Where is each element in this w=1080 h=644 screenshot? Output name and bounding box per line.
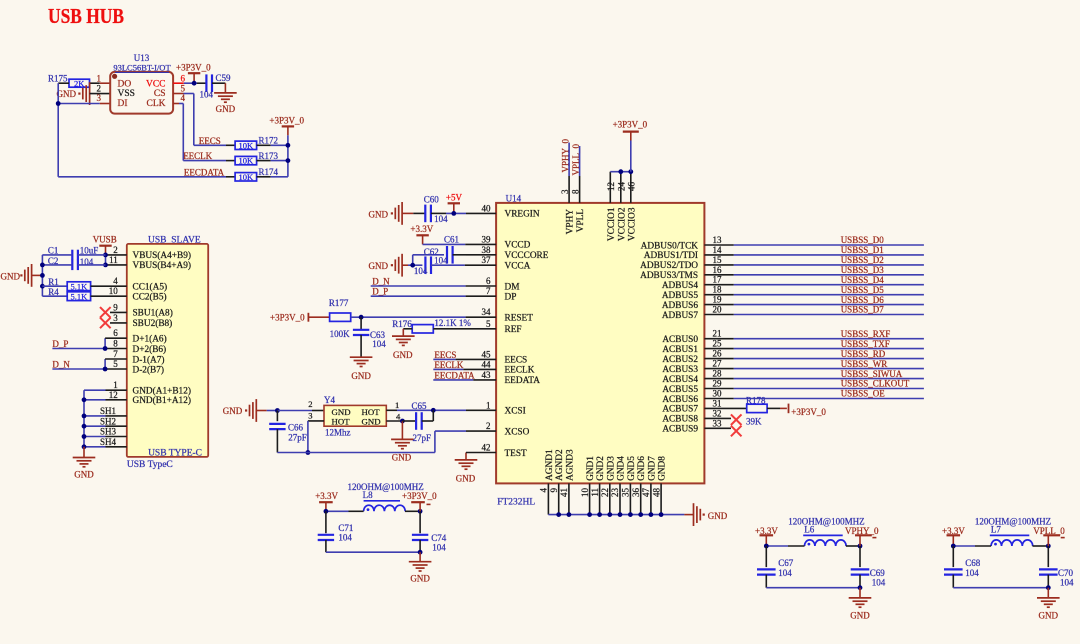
svg-text:9: 9 — [113, 302, 118, 312]
pin number 5 U13 — [181, 83, 186, 93]
pin number 2 USB_SLAVE — [113, 245, 118, 255]
svg-text:7: 7 — [113, 349, 118, 359]
svg-text:USBSS_D3: USBSS_D3 — [841, 265, 885, 275]
svg-text:VCCA: VCCA — [505, 262, 531, 272]
no-connect X SBU2 — [100, 318, 127, 329]
svg-text:GND(B1+A12): GND(B1+A12) — [133, 395, 191, 406]
pin number 4 U13 — [181, 93, 186, 103]
svg-text:28: 28 — [713, 369, 723, 379]
svg-text:ACBUS4: ACBUS4 — [662, 375, 698, 385]
svg-text:C65: C65 — [412, 401, 428, 411]
pin number 31 U14 right — [713, 398, 722, 408]
resistor R173 — [235, 151, 288, 166]
pin number 12 U14 top — [606, 182, 616, 191]
power +5V — [446, 192, 463, 213]
svg-text:CLK: CLK — [147, 99, 166, 109]
svg-text:104: 104 — [434, 214, 448, 224]
svg-text:GND2: GND2 — [596, 456, 606, 481]
wire bottom GND bus — [548, 483, 684, 514]
svg-text:17: 17 — [713, 275, 723, 285]
svg-text:USBSS_D7: USBSS_D7 — [841, 305, 885, 315]
resistor R178 — [704, 396, 787, 427]
pin number 1 U13 — [97, 74, 102, 84]
svg-text:USB TYPE-C: USB TYPE-C — [148, 448, 202, 458]
svg-text:104: 104 — [372, 339, 386, 349]
svg-text:12Mhz: 12Mhz — [325, 427, 351, 437]
svg-text:VSS: VSS — [118, 89, 135, 99]
svg-text:42: 42 — [482, 443, 491, 453]
svg-text:+3P3V_0: +3P3V_0 — [791, 407, 826, 417]
capacitor C65 — [402, 401, 433, 443]
pin number 10 USB_SLAVE — [109, 286, 119, 296]
svg-text:ACBUS6: ACBUS6 — [662, 395, 698, 405]
junction VCCA-GND — [410, 263, 415, 268]
wire/node USBSS_D4 — [704, 275, 924, 285]
svg-text:CC1(A5): CC1(A5) — [133, 282, 168, 293]
wire XCSO net — [277, 431, 496, 452]
node EECDATA label — [184, 167, 225, 177]
wire/node USBSS_SIWUA — [704, 369, 924, 379]
svg-text:R173: R173 — [259, 151, 279, 161]
svg-text:38: 38 — [482, 245, 492, 255]
pin number 21 U14 right — [713, 329, 722, 339]
svg-text:GND: GND — [850, 611, 870, 621]
resistor R4 — [42, 287, 126, 301]
svg-text:DI: DI — [118, 99, 128, 109]
svg-text:ADBUS5: ADBUS5 — [662, 291, 699, 301]
svg-text:USBSS_D4: USBSS_D4 — [841, 275, 885, 285]
pin number 26 U14 right — [713, 349, 723, 359]
IC U14 FT232HL body — [496, 194, 704, 508]
svg-text:XCSO: XCSO — [505, 427, 530, 437]
svg-text:1: 1 — [395, 400, 399, 410]
ground GND under Y4 pin4 — [391, 421, 414, 462]
pin number 42 U14 left — [482, 443, 491, 453]
svg-text:+5V: +5V — [446, 192, 463, 202]
power +3.3V at L8 — [315, 491, 338, 511]
power port +3P3V_0 at RESET — [270, 312, 330, 322]
pin number 37 U14 left — [482, 255, 492, 265]
node EECLK label — [183, 151, 212, 161]
wire EECS row — [194, 144, 235, 146]
svg-text:GND: GND — [393, 350, 413, 360]
svg-text:GND: GND — [216, 104, 236, 114]
svg-text:ACBUS1: ACBUS1 — [662, 345, 698, 355]
svg-text:C66: C66 — [288, 422, 304, 432]
svg-text:C67: C67 — [778, 558, 794, 568]
wire/node USBSS_D3 — [704, 265, 924, 275]
pin number 32 U14 right — [713, 408, 722, 418]
capacitor C60 — [413, 195, 496, 224]
svg-text:USBSS_D6: USBSS_D6 — [841, 295, 885, 305]
capacitor C71 — [318, 511, 354, 552]
svg-text:9: 9 — [549, 488, 559, 493]
svg-text:USB HUB: USB HUB — [48, 4, 124, 28]
wire EEDATA stub — [433, 379, 496, 381]
wire left rail — [41, 255, 43, 296]
svg-text:GND5: GND5 — [627, 456, 637, 481]
wire Y4 pin4 — [386, 420, 402, 422]
svg-text:D-2(B7): D-2(B7) — [133, 364, 165, 375]
junction GND bus — [649, 512, 654, 517]
svg-text:ADBUS7: ADBUS7 — [662, 311, 699, 321]
pin number 11 U14 bottom — [590, 488, 600, 497]
svg-text:VREGIN: VREGIN — [505, 210, 540, 220]
svg-text:27pF: 27pF — [288, 433, 307, 443]
pin number 15 U14 right — [713, 255, 723, 265]
pin number 4 U14 bottom — [539, 488, 549, 493]
svg-text:AGND2: AGND2 — [555, 449, 565, 481]
resistor R175 — [48, 74, 100, 89]
svg-text:D-1(A7): D-1(A7) — [133, 354, 165, 365]
svg-text:CC2(B5): CC2(B5) — [133, 292, 167, 303]
resistor R174 — [235, 167, 288, 182]
no-connect X SBU1 — [100, 307, 127, 318]
power +3.3V at L7 — [942, 526, 965, 546]
pin number 3 USB_SLAVE — [113, 313, 118, 323]
svg-text:GND: GND — [332, 407, 351, 417]
wire VPLL pin 8 — [579, 146, 581, 203]
pin number 5 USB_SLAVE — [113, 359, 118, 369]
U14 bottom pin names — [545, 449, 668, 481]
junction GND12 — [82, 397, 87, 402]
svg-text:SH1: SH1 — [100, 406, 116, 416]
svg-text:USBSS_D1: USBSS_D1 — [841, 245, 884, 255]
svg-text:6: 6 — [181, 74, 186, 84]
junction VBUS1 — [103, 253, 108, 258]
svg-text:5.1K: 5.1K — [71, 281, 89, 291]
svg-text:44: 44 — [482, 359, 492, 369]
wire D_P — [52, 338, 126, 348]
node D_N label — [52, 360, 70, 370]
svg-text:48: 48 — [651, 488, 661, 498]
node VPHY_0 at L6 — [845, 526, 879, 546]
svg-text:D_N: D_N — [52, 360, 70, 370]
inductor L8 120OHM@100MHZ — [326, 482, 424, 511]
svg-text:104: 104 — [414, 266, 428, 276]
junction VBUS2 — [103, 263, 108, 268]
wire ACBUS9 stub — [704, 427, 731, 429]
pin number 13 U14 right — [713, 235, 723, 245]
svg-text:31: 31 — [713, 398, 722, 408]
junction R173 rail — [286, 158, 291, 163]
junction R172 rail — [286, 143, 291, 148]
pin SH3 — [82, 427, 127, 439]
pin number 2 U13 — [97, 83, 102, 93]
svg-text:29: 29 — [713, 379, 723, 389]
svg-text:Y4: Y4 — [324, 395, 335, 405]
pin number 34 U14 left — [482, 307, 492, 317]
junction L8 right — [418, 509, 423, 514]
junction GND bus — [607, 512, 612, 517]
wire VPHY pin 3 — [568, 143, 570, 203]
wire/node USBSS_OE — [704, 389, 924, 399]
svg-text:USBSS_D0: USBSS_D0 — [841, 235, 885, 245]
svg-text:6: 6 — [486, 276, 491, 286]
svg-text:32: 32 — [713, 408, 722, 418]
pin number 27 U14 right — [713, 359, 723, 369]
svg-text:C59: C59 — [216, 73, 232, 83]
pin number 14 U14 right — [713, 245, 723, 255]
svg-text:GND: GND — [1039, 611, 1059, 621]
svg-text:VCCIO1: VCCIO1 — [607, 207, 617, 241]
svg-text:USBSS_D5: USBSS_D5 — [841, 285, 885, 295]
capacitor C66 — [269, 411, 307, 453]
svg-text:+3.3V: +3.3V — [410, 224, 433, 234]
pin number 30 U14 right — [713, 389, 723, 399]
svg-text:TEST: TEST — [505, 449, 528, 459]
svg-text:GND6: GND6 — [637, 456, 647, 481]
svg-text:GND1: GND1 — [586, 456, 596, 481]
svg-text:GND: GND — [57, 89, 77, 99]
pin number 18 U14 right — [713, 285, 723, 295]
svg-text:3: 3 — [113, 313, 118, 323]
power +3P3V_0 at U13 — [176, 63, 211, 84]
svg-text:R174: R174 — [259, 167, 279, 177]
node D_P label at U14 — [372, 287, 388, 297]
node D_N label at U14 — [372, 276, 390, 286]
svg-text:VCCIO3: VCCIO3 — [627, 207, 637, 241]
pin number 16 U14 right — [713, 265, 723, 275]
svg-text:USB TypeC: USB TypeC — [127, 460, 173, 470]
svg-text:4: 4 — [539, 488, 549, 493]
svg-text:3: 3 — [308, 411, 312, 421]
pin number 9 U14 bottom — [549, 488, 559, 493]
svg-text:10K: 10K — [239, 156, 255, 166]
capacitor C70 — [1039, 546, 1074, 588]
svg-text:39: 39 — [482, 234, 492, 244]
svg-text:93LC56BT-I/OT: 93LC56BT-I/OT — [113, 63, 171, 73]
pin number 39 U14 left — [482, 234, 492, 244]
wire/node USBSS_D6 — [704, 295, 924, 305]
node VPHY_0 vertical label — [560, 138, 570, 172]
pin number 23 U14 bottom — [610, 488, 620, 498]
svg-text:GND: GND — [392, 452, 412, 462]
power +3P3V_0 above U14 — [613, 119, 648, 171]
svg-text:10uF: 10uF — [80, 246, 99, 256]
no-connect X ACBUS9 — [731, 426, 742, 437]
svg-text:3: 3 — [97, 93, 102, 103]
power port +3P3V_0 at R178 — [789, 404, 827, 417]
svg-text:USBSS_WR: USBSS_WR — [841, 359, 888, 369]
svg-text:SH4: SH4 — [100, 437, 117, 447]
capacitor C68 — [944, 546, 981, 588]
pin number 8 U14 top — [571, 189, 581, 194]
pin number 12 USB_SLAVE — [109, 390, 118, 400]
svg-text:EECDATA: EECDATA — [184, 167, 225, 177]
svg-text:14: 14 — [713, 245, 723, 255]
junction RESET-C63 — [359, 315, 364, 320]
ground GND below USB connector — [73, 447, 96, 480]
wire Y4 pin3 — [308, 421, 324, 453]
svg-text:104: 104 — [965, 568, 979, 578]
junction L6 right — [858, 544, 863, 549]
svg-text:EEDATA: EEDATA — [505, 376, 541, 386]
pin number 25 U14 right — [713, 339, 723, 349]
wire VCC pin 6 — [173, 82, 206, 84]
svg-text:USBSS_D2: USBSS_D2 — [841, 255, 884, 265]
crystal Y4 body — [324, 395, 386, 437]
capacitor C67 — [757, 546, 794, 588]
pin number 3 U14 top — [560, 189, 570, 194]
junction VCC node — [192, 81, 197, 86]
svg-text:R176: R176 — [392, 319, 412, 329]
pin number 1 U14 left — [486, 400, 491, 410]
U14 top pin names VPHY VPLL VCCIO1-3 — [566, 207, 638, 241]
wire/node USBSS_D1 — [704, 245, 924, 255]
svg-text:DM: DM — [505, 282, 520, 292]
junction GND bus — [628, 512, 633, 517]
junction L6 left — [764, 544, 769, 549]
svg-text:R177: R177 — [329, 298, 349, 308]
pin number 36 U14 bottom — [631, 488, 641, 498]
wire/node USBSS_D2 — [704, 255, 924, 265]
pin number 44 U14 left — [482, 359, 492, 369]
svg-text:C69: C69 — [870, 568, 886, 578]
wire L6 bottom — [766, 587, 860, 589]
junction GND bus — [638, 512, 643, 517]
power VUSB — [93, 234, 117, 255]
svg-text:21: 21 — [713, 329, 722, 339]
capacitor C2 — [42, 256, 105, 270]
junction VREGIN — [451, 211, 456, 216]
svg-text:6: 6 — [113, 328, 118, 338]
svg-text:SH3: SH3 — [100, 427, 117, 437]
svg-text:30: 30 — [713, 389, 723, 399]
svg-text:5: 5 — [181, 83, 186, 93]
svg-text:U13: U13 — [134, 53, 150, 63]
U14 left pin names — [505, 210, 549, 459]
svg-text:2: 2 — [486, 421, 491, 431]
svg-text:27pF: 27pF — [413, 433, 432, 443]
svg-text:35: 35 — [621, 488, 631, 498]
wire DP row — [371, 295, 496, 297]
svg-text:HOT: HOT — [362, 407, 381, 417]
power +3P3V_0 pullup rail — [269, 115, 304, 176]
svg-text:GND: GND — [708, 511, 728, 521]
svg-text:100K: 100K — [330, 329, 351, 339]
title USB HUB — [48, 4, 124, 28]
svg-text:2: 2 — [97, 83, 102, 93]
svg-text:1: 1 — [486, 400, 491, 410]
svg-text:ACBUS8: ACBUS8 — [662, 415, 698, 425]
capacitor C69 — [851, 546, 886, 588]
svg-text:ACBUS9: ACBUS9 — [662, 425, 698, 435]
ground GND U13-VSS — [57, 82, 111, 105]
svg-text:GND: GND — [351, 371, 371, 381]
resistor R172 — [235, 136, 288, 151]
svg-text:ADBUS6: ADBUS6 — [662, 301, 699, 311]
svg-text:5: 5 — [113, 359, 118, 369]
pin SH2 — [82, 416, 127, 428]
junction rail-GND — [40, 273, 45, 278]
pin number 6 U14 left — [486, 276, 491, 286]
wire GND pins rail — [84, 390, 127, 447]
svg-text:USBSS_OE: USBSS_OE — [841, 389, 886, 399]
wire/node USBSS_D0 — [704, 235, 924, 245]
svg-text:+3P3V_0: +3P3V_0 — [613, 119, 648, 129]
svg-text:8: 8 — [113, 339, 118, 349]
svg-text:SBU2(B8): SBU2(B8) — [133, 318, 173, 329]
svg-text:D_N: D_N — [372, 276, 390, 286]
svg-text:+3.3V: +3.3V — [315, 491, 338, 501]
pin number 2 Y4 — [308, 399, 312, 409]
junction L7 left — [951, 544, 956, 549]
power +3.3V at VCCD — [410, 224, 433, 244]
ground GND under C63 — [350, 357, 373, 381]
junction GND bus — [556, 512, 561, 517]
svg-text:104: 104 — [872, 578, 886, 588]
svg-text:C61: C61 — [444, 234, 459, 244]
svg-text:2: 2 — [308, 399, 312, 409]
svg-text:10: 10 — [580, 488, 590, 498]
power +3.3V at L6 — [755, 526, 778, 546]
pin number 9 USB_SLAVE — [113, 302, 118, 312]
svg-text:EECDATA: EECDATA — [434, 370, 475, 380]
wire/node USBSS_TXF — [704, 339, 924, 349]
node D_P label — [52, 339, 68, 349]
svg-text:+3P3V_0: +3P3V_0 — [176, 63, 211, 73]
pin number 19 U14 right — [713, 295, 723, 305]
node VPLL_0 vertical label — [571, 144, 581, 176]
junction GND bus — [597, 512, 602, 517]
svg-text:L8: L8 — [363, 490, 373, 500]
wire ACBUS8 stub — [704, 417, 731, 419]
ground GND left of USB — [1, 264, 43, 287]
svg-text:USBSS_RXF: USBSS_RXF — [841, 329, 891, 339]
svg-text:USBSS_TXF: USBSS_TXF — [841, 339, 890, 349]
resistor R1 — [42, 277, 126, 291]
junction GND bus — [587, 512, 592, 517]
pin number 17 U14 right — [713, 275, 723, 285]
ground GND at C62 — [369, 254, 409, 277]
svg-text:104: 104 — [338, 532, 352, 542]
pin number 6 USB_SLAVE — [113, 328, 118, 338]
pin number 3 U13 — [97, 93, 102, 103]
svg-text:1: 1 — [97, 74, 102, 84]
svg-text:VUSB: VUSB — [93, 234, 117, 244]
svg-text:EECS: EECS — [505, 356, 528, 366]
capacitor C61 — [413, 234, 496, 265]
svg-text:EECLK: EECLK — [434, 360, 463, 370]
junction VCCIO2 — [618, 169, 623, 174]
svg-text:13: 13 — [713, 235, 723, 245]
svg-text:11: 11 — [590, 488, 600, 497]
node EECS label — [199, 136, 221, 146]
node EECDATA label at U14 — [434, 370, 475, 380]
junction Y4 pin2 node — [275, 408, 280, 413]
capacitor C59 — [200, 73, 232, 100]
svg-text:33: 33 — [713, 418, 723, 428]
pin number 48 U14 bottom — [651, 488, 661, 498]
svg-text:SH2: SH2 — [100, 416, 116, 426]
svg-text:10K: 10K — [239, 140, 255, 150]
inductor L6 120OHM@100MHZ — [766, 517, 864, 547]
svg-text:GND: GND — [369, 209, 389, 219]
ground GND under C59 — [214, 83, 237, 114]
junction L6 gnd — [858, 585, 863, 590]
junction GND bus — [618, 512, 623, 517]
wire EECLK stub — [433, 368, 496, 370]
svg-text:ADBUS0/TCK: ADBUS0/TCK — [641, 241, 699, 251]
wire ADBUS stubs — [0, 0, 1, 1]
junction GND bus — [659, 512, 664, 517]
junction GND bus — [567, 512, 572, 517]
wire Y4 pin1 to XCSI — [386, 409, 496, 411]
node VPLL_0 at L7 — [1033, 526, 1065, 546]
svg-text:VPHY: VPHY — [566, 209, 576, 235]
pin number 46 U14 top — [626, 182, 636, 192]
